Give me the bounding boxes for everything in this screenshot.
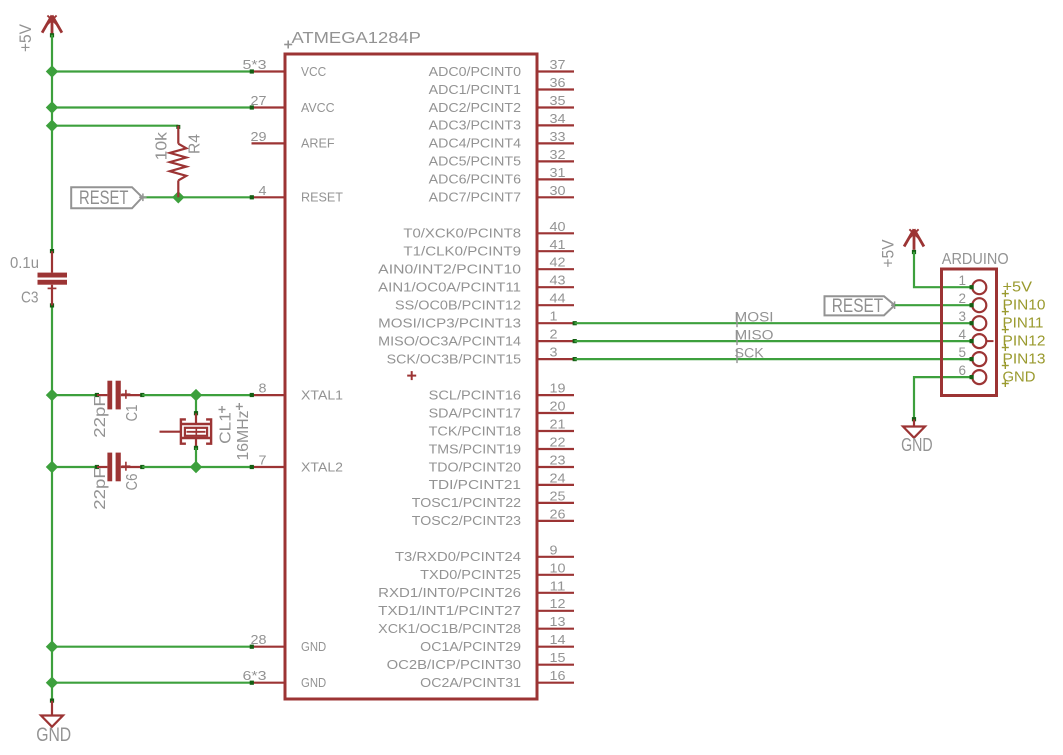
svg-text:AIN0/INT2/PCINT10: AIN0/INT2/PCINT10 [378,262,521,277]
svg-text:11: 11 [550,578,566,593]
svg-text:MISO: MISO [735,327,774,342]
svg-text:ADC0/PCINT0: ADC0/PCINT0 [429,64,521,79]
svg-text:25: 25 [550,488,566,503]
svg-text:VCC: VCC [301,64,326,79]
svg-text:GND: GND [36,724,71,746]
svg-text:C6: C6 [124,474,141,491]
svg-text:ADC2/PCINT2: ADC2/PCINT2 [429,100,521,115]
svg-text:1: 1 [550,309,558,324]
svg-text:XTAL1: XTAL1 [301,387,343,402]
svg-text:7: 7 [259,453,267,468]
svg-text:PIN10: PIN10 [1003,298,1046,314]
svg-text:SCL/PCINT16: SCL/PCINT16 [429,387,521,402]
svg-text:AIN1/OC0A/PCINT11: AIN1/OC0A/PCINT11 [378,280,521,295]
svg-text:+5V: +5V [17,24,35,52]
svg-text:0.1u: 0.1u [10,255,39,272]
svg-text:OC2A/PCINT31: OC2A/PCINT31 [420,675,521,690]
svg-text:TOSC1/PCINT22: TOSC1/PCINT22 [412,495,521,510]
svg-text:2: 2 [550,327,558,342]
svg-text:1: 1 [958,273,966,288]
svg-text:OC1A/PCINT29: OC1A/PCINT29 [420,639,521,654]
svg-text:4: 4 [958,327,966,342]
svg-text:2: 2 [958,291,966,306]
svg-text:TXD1/INT1/PCINT27: TXD1/INT1/PCINT27 [378,603,521,618]
svg-text:22pF: 22pF [92,395,109,438]
svg-text:RXD1/INT0/PCINT26: RXD1/INT0/PCINT26 [378,585,521,600]
svg-text:22pF: 22pF [92,467,109,510]
svg-text:ADC4/PCINT4: ADC4/PCINT4 [429,136,521,151]
svg-text:ATMEGA1284P: ATMEGA1284P [292,30,421,47]
svg-text:MISO/OC3A/PCINT14: MISO/OC3A/PCINT14 [378,333,521,348]
svg-text:6: 6 [958,363,966,378]
svg-text:GND: GND [301,639,326,654]
svg-text:29: 29 [251,129,267,144]
svg-text:23: 23 [550,453,566,468]
svg-text:CL1: CL1 [218,412,235,444]
svg-text:16: 16 [550,668,566,683]
svg-text:C1: C1 [124,405,141,422]
svg-text:13: 13 [550,614,566,629]
svg-text:24: 24 [550,470,566,485]
svg-text:ADC3/PCINT3: ADC3/PCINT3 [429,118,521,133]
svg-text:10: 10 [550,560,566,575]
svg-text:22: 22 [550,435,566,450]
svg-text:ADC5/PCINT5: ADC5/PCINT5 [429,154,521,169]
svg-text:T0/XCK0/PCINT8: T0/XCK0/PCINT8 [403,226,521,241]
svg-text:GND: GND [301,675,326,690]
svg-text:31: 31 [550,165,566,180]
svg-text:32: 32 [550,147,566,162]
svg-text:T1/CLK0/PCINT9: T1/CLK0/PCINT9 [403,244,521,259]
svg-text:SDA/PCINT17: SDA/PCINT17 [429,405,521,420]
svg-text:TCK/PCINT18: TCK/PCINT18 [429,423,521,438]
svg-text:42: 42 [550,255,566,270]
svg-text:26: 26 [550,506,566,521]
svg-text:3: 3 [550,345,558,360]
svg-text:12: 12 [550,596,566,611]
svg-text:ADC1/PCINT1: ADC1/PCINT1 [429,82,521,97]
svg-text:43: 43 [550,273,566,288]
svg-text:XTAL2: XTAL2 [301,459,343,474]
svg-text:36: 36 [550,75,566,90]
svg-text:TOSC2/PCINT23: TOSC2/PCINT23 [412,513,521,528]
svg-text:RESET: RESET [301,190,343,205]
svg-text:TXD0/PCINT25: TXD0/PCINT25 [420,567,521,582]
svg-text:PIN13: PIN13 [1003,352,1046,368]
svg-text:6*3: 6*3 [243,668,267,683]
svg-text:XCK1/OC1B/PCINT28: XCK1/OC1B/PCINT28 [378,621,521,636]
svg-text:35: 35 [550,93,566,108]
svg-text:3: 3 [958,309,966,324]
svg-text:5*3: 5*3 [243,57,267,72]
svg-text:RESET: RESET [79,188,129,209]
svg-text:OC2B/ICP/PCINT30: OC2B/ICP/PCINT30 [387,657,521,672]
svg-text:SCK: SCK [735,345,764,360]
svg-text:ADC6/PCINT6: ADC6/PCINT6 [429,172,521,187]
svg-text:TDI/PCINT21: TDI/PCINT21 [429,477,521,492]
svg-text:19: 19 [550,381,566,396]
svg-text:TMS/PCINT19: TMS/PCINT19 [429,441,521,456]
svg-text:GND: GND [901,435,933,455]
svg-text:33: 33 [550,129,566,144]
svg-text:PIN12: PIN12 [1003,334,1046,350]
svg-text:MOSI: MOSI [735,309,774,324]
svg-text:SS/OC0B/PCINT12: SS/OC0B/PCINT12 [395,298,521,313]
svg-text:MOSI/ICP3/PCINT13: MOSI/ICP3/PCINT13 [378,316,521,331]
svg-text:15: 15 [550,650,566,665]
svg-text:30: 30 [550,183,566,198]
svg-text:16MHz: 16MHz [235,411,252,461]
svg-text:41: 41 [550,237,566,252]
svg-text:37: 37 [550,57,566,72]
svg-text:14: 14 [550,632,566,647]
svg-text:44: 44 [550,291,566,306]
svg-text:9: 9 [550,542,558,557]
svg-text:C3: C3 [21,290,39,307]
svg-text:8: 8 [259,381,267,396]
svg-text:RESET: RESET [832,296,884,317]
svg-text:R4: R4 [187,134,204,154]
svg-text:40: 40 [550,219,566,234]
svg-text:ARDUINO: ARDUINO [942,251,1009,268]
svg-text:5: 5 [958,345,966,360]
svg-text:AREF: AREF [301,136,335,151]
svg-text:ADC7/PCINT7: ADC7/PCINT7 [429,190,521,205]
svg-text:AVCC: AVCC [301,100,335,115]
svg-text:34: 34 [550,111,566,126]
svg-text:SCK/OC3B/PCINT15: SCK/OC3B/PCINT15 [387,351,521,366]
svg-text:4: 4 [259,183,267,198]
svg-text:20: 20 [550,399,566,414]
svg-text:T3/RXD0/PCINT24: T3/RXD0/PCINT24 [395,549,521,564]
svg-text:+5V: +5V [880,239,898,267]
svg-text:10k: 10k [154,131,171,160]
svg-text:21: 21 [550,417,566,432]
svg-text:TDO/PCINT20: TDO/PCINT20 [429,459,521,474]
